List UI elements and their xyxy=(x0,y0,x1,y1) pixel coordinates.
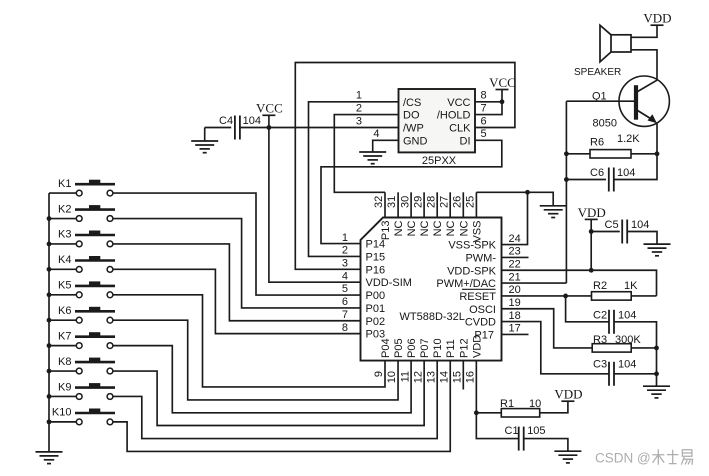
svg-text:K3: K3 xyxy=(58,229,71,241)
wire R2 right xyxy=(631,295,656,297)
wire C2 right down to ground rail xyxy=(614,322,657,386)
svg-text:29: 29 xyxy=(412,196,424,208)
resistor R1 xyxy=(500,398,541,417)
svg-text:P15: P15 xyxy=(366,252,386,264)
svg-text:C4: C4 xyxy=(219,115,233,127)
wire R3 right xyxy=(631,347,656,349)
svg-text:/WP: /WP xyxy=(403,123,424,135)
wire K5 to P04 pin9 xyxy=(113,295,385,387)
svg-text:19: 19 xyxy=(509,297,521,309)
svg-text:P05: P05 xyxy=(393,338,405,358)
node R3 right junction xyxy=(654,346,659,351)
svg-text:P02: P02 xyxy=(366,316,386,328)
svg-text:1: 1 xyxy=(356,90,362,102)
svg-text:SPEAKER: SPEAKER xyxy=(574,67,621,78)
node pin16 R1 junction xyxy=(474,410,479,415)
resistor R2 xyxy=(592,280,639,300)
svg-text:DO: DO xyxy=(403,110,420,122)
svg-text:7: 7 xyxy=(342,309,348,321)
svg-text:VCC: VCC xyxy=(489,75,516,90)
svg-text:K1: K1 xyxy=(58,178,71,190)
VDD supply symbol bottom xyxy=(554,387,582,402)
svg-text:NC: NC xyxy=(432,220,444,236)
svg-text:2: 2 xyxy=(342,245,348,257)
wire OSCI pin19 to R3 left xyxy=(502,309,593,348)
svg-text:13: 13 xyxy=(425,371,437,383)
wire Q1 emitter down xyxy=(656,123,658,154)
wire C1 to ground xyxy=(524,439,568,452)
svg-text:31: 31 xyxy=(386,196,398,208)
svg-text:K5: K5 xyxy=(58,280,71,292)
svg-text:NC: NC xyxy=(458,220,470,236)
node VDD to pin22 junction xyxy=(589,268,594,273)
svg-text:VCC: VCC xyxy=(447,97,470,109)
svg-text:GND: GND xyxy=(403,135,428,147)
wire C6 right up to emitter node xyxy=(614,154,657,180)
wire CVDD pin18 to C3 left xyxy=(502,322,610,374)
wire K1 left terminal to bus xyxy=(49,192,76,194)
pushbutton K3 xyxy=(58,229,115,247)
wire K3 left terminal to bus xyxy=(49,243,76,245)
pushbutton K2 xyxy=(58,203,115,221)
svg-text:4: 4 xyxy=(342,270,348,282)
wire pin16 to R1 left xyxy=(476,412,501,414)
pin 17 P17 stub (unconnected) xyxy=(502,333,529,335)
capacitor C4 xyxy=(219,115,261,140)
wire R6 right xyxy=(631,153,657,155)
wire Q1 base xyxy=(566,100,634,102)
wire K5 left terminal to bus xyxy=(49,294,76,296)
svg-text:WT588D-32L: WT588D-32L xyxy=(400,311,465,323)
junction dots on button bus xyxy=(47,216,52,424)
wire K8 left terminal to bus xyxy=(49,370,76,372)
svg-text:VDD: VDD xyxy=(554,387,582,402)
wire VDD to C5 xyxy=(591,231,620,233)
svg-text:P04: P04 xyxy=(380,338,392,358)
node VSS junction xyxy=(525,190,530,195)
wire 25PXX VCC pin8 xyxy=(475,101,502,103)
wire 25PXX CLK pin6 to P16 pin3 xyxy=(295,63,515,270)
pushbutton K10 xyxy=(52,407,115,425)
resistor R6 xyxy=(590,136,631,158)
svg-text:C5: C5 xyxy=(605,219,619,231)
IC U1 25PXX flash memory xyxy=(356,89,487,167)
wire K9 to P10 pin13 xyxy=(113,361,437,439)
wire K10 left terminal to bus xyxy=(49,421,76,423)
ground at VSS xyxy=(540,206,567,218)
svg-text:P01: P01 xyxy=(366,303,386,315)
wire K10 to P11 pin14 xyxy=(113,361,450,452)
svg-text:NC: NC xyxy=(445,220,457,236)
svg-text:NC: NC xyxy=(406,220,418,236)
svg-text:VCC: VCC xyxy=(256,101,283,116)
svg-text:6: 6 xyxy=(481,115,487,127)
svg-text:23: 23 xyxy=(509,246,521,258)
svg-text:1.2K: 1.2K xyxy=(617,133,640,145)
svg-text:/CS: /CS xyxy=(403,97,421,109)
node C3 right junction xyxy=(654,371,659,376)
node R6 left junction xyxy=(564,151,569,156)
svg-text:5: 5 xyxy=(481,128,487,140)
svg-text:K6: K6 xyxy=(58,305,71,317)
svg-text:P00: P00 xyxy=(366,290,386,302)
wire RESET node down to C2 xyxy=(566,296,609,322)
svg-text:C3: C3 xyxy=(593,359,607,371)
VDD supply symbol middle xyxy=(578,205,606,220)
capacitor C5 xyxy=(605,219,650,244)
svg-text:R1: R1 xyxy=(500,398,514,410)
VCC supply symbol left xyxy=(256,101,283,116)
svg-text:OSCI: OSCI xyxy=(469,304,496,316)
wire 25PXX /CS pin1 to P15 pin2 xyxy=(309,102,399,257)
wire K2 to P01 pin6 xyxy=(113,219,360,308)
wire VSS pin25 to ground xyxy=(476,192,553,206)
svg-text:8: 8 xyxy=(481,90,487,102)
wire button common bus xyxy=(48,193,50,452)
ground button bus xyxy=(36,452,63,464)
speaker LS1 xyxy=(574,25,631,78)
wire VDD to speaker + xyxy=(631,25,657,37)
svg-text:VDD-SIM: VDD-SIM xyxy=(366,277,412,289)
svg-text:VDD: VDD xyxy=(643,11,671,26)
wire K7 left terminal to bus xyxy=(49,345,76,347)
wire VDD down to VDD-SPK row xyxy=(590,219,592,270)
pushbutton K1 xyxy=(58,178,115,196)
svg-text:/HOLD: /HOLD xyxy=(437,110,471,122)
svg-text:P07: P07 xyxy=(419,338,431,358)
svg-text:R6: R6 xyxy=(590,136,604,148)
node R6 right junction xyxy=(655,151,660,156)
svg-text:R2: R2 xyxy=(593,280,607,292)
svg-text:16: 16 xyxy=(465,371,477,383)
wire 25PXX DI pin5 to P14 pin1 xyxy=(321,140,502,243)
wire to R6 left xyxy=(566,153,590,155)
pin 15 P12 stub (unconnected) xyxy=(462,361,464,390)
wire C4 to ground xyxy=(204,128,206,142)
svg-text:2: 2 xyxy=(356,102,362,114)
svg-text:C1: C1 xyxy=(505,425,519,437)
pushbutton K5 xyxy=(58,280,115,298)
wire K6 to P05 pin10 xyxy=(113,320,398,400)
svg-text:24: 24 xyxy=(509,233,521,245)
svg-text:300K: 300K xyxy=(615,334,641,346)
wire 25PXX /HOLD pin7 to VCC xyxy=(475,102,502,115)
svg-text:10: 10 xyxy=(386,371,398,383)
svg-text:25PXX: 25PXX xyxy=(422,155,457,167)
ground at C3/R3 rail xyxy=(643,386,670,398)
svg-text:P12: P12 xyxy=(458,338,470,358)
wire K7 to P06 pin11 xyxy=(113,346,411,413)
svg-text:30: 30 xyxy=(399,196,411,208)
svg-text:K2: K2 xyxy=(58,203,71,215)
svg-text:15: 15 xyxy=(452,371,464,383)
svg-text:27: 27 xyxy=(438,196,450,208)
wire ground to C4 xyxy=(205,127,232,129)
svg-text:26: 26 xyxy=(452,196,464,208)
wire speaker - to Q1 collector xyxy=(631,50,657,80)
capacitor C1 xyxy=(505,425,546,451)
svg-text:104: 104 xyxy=(243,115,261,127)
wire K4 to P03 pin8 xyxy=(113,269,360,333)
svg-text:VDD: VDD xyxy=(578,205,606,220)
wire K8 to P07 pin12 xyxy=(113,361,424,426)
svg-text:NC: NC xyxy=(419,220,431,236)
VDD supply symbol top xyxy=(643,11,671,26)
wire RESET pin20 to R2 left xyxy=(502,295,592,297)
pin 23 PWM- stub (unconnected) xyxy=(502,256,529,258)
svg-text:9: 9 xyxy=(373,371,385,377)
svg-text:P11: P11 xyxy=(445,339,457,358)
svg-text:104: 104 xyxy=(618,310,636,322)
svg-text:28: 28 xyxy=(425,196,437,208)
svg-text:25: 25 xyxy=(465,196,477,208)
svg-text:7: 7 xyxy=(481,102,487,114)
pins 32-25 top stubs of U2 xyxy=(385,192,476,217)
ground at C4 xyxy=(191,141,218,153)
svg-text:3: 3 xyxy=(356,115,362,127)
svg-text:PWM+/DAC: PWM+/DAC xyxy=(436,278,496,290)
capacitor C3 xyxy=(593,359,636,386)
svg-text:K10: K10 xyxy=(52,407,72,419)
svg-text:104: 104 xyxy=(617,167,635,179)
svg-text:CVDD: CVDD xyxy=(465,317,496,329)
wire 25PXX DO pin2 to P13 pin32 xyxy=(334,115,398,193)
svg-text:K8: K8 xyxy=(58,356,71,368)
svg-text:6: 6 xyxy=(342,296,348,308)
svg-text:20: 20 xyxy=(509,284,521,296)
svg-text:5: 5 xyxy=(342,283,348,295)
pushbutton K6 xyxy=(58,305,115,323)
svg-text:RESET: RESET xyxy=(459,291,496,303)
ground at C5 xyxy=(644,244,671,256)
svg-text:14: 14 xyxy=(438,371,450,383)
svg-text:VDD-SPK: VDD-SPK xyxy=(447,265,497,277)
pushbutton K4 xyxy=(58,254,115,272)
svg-text:C2: C2 xyxy=(593,310,607,322)
wire K2 left terminal to bus xyxy=(49,218,76,220)
wire C3 right xyxy=(614,373,657,375)
wire 25PXX GND pin4 to ground xyxy=(373,140,399,152)
svg-text:P16: P16 xyxy=(366,264,386,276)
svg-text:3: 3 xyxy=(342,258,348,270)
resistor R3 xyxy=(592,334,641,352)
wire VCC to VDD-SIM pin4 xyxy=(269,128,361,283)
svg-text:VSS: VSS xyxy=(471,221,483,243)
svg-text:C6: C6 xyxy=(590,167,604,179)
svg-text:R3: R3 xyxy=(593,334,607,346)
svg-text:12: 12 xyxy=(412,371,424,383)
node VCC junction xyxy=(267,125,272,130)
wire VCC symbol to pin8 xyxy=(501,90,503,102)
svg-text:105: 105 xyxy=(527,425,545,437)
svg-text:22: 22 xyxy=(509,259,521,271)
wire C5 to ground xyxy=(627,232,657,245)
svg-text:PWM-: PWM- xyxy=(465,252,496,264)
node C5 junction xyxy=(589,229,594,234)
svg-text:P06: P06 xyxy=(406,338,418,358)
node RESET junction xyxy=(563,294,568,299)
svg-text:P13: P13 xyxy=(380,221,392,241)
wire Q1 base down to PWM+/DAC xyxy=(565,101,567,283)
node C6 left junction xyxy=(564,177,569,182)
wire VSS-SPK pin24 to VSS net xyxy=(502,192,528,244)
svg-text:18: 18 xyxy=(509,310,521,322)
svg-text:1K: 1K xyxy=(624,280,638,292)
VCC supply symbol at 25PXX xyxy=(489,75,516,90)
IC U2 WT588D-32L voice chip xyxy=(342,196,521,384)
wire K9 left terminal to bus xyxy=(49,395,76,397)
capacitor C2 xyxy=(593,310,636,334)
svg-text:8050: 8050 xyxy=(593,118,617,130)
svg-text:11: 11 xyxy=(399,371,411,382)
svg-text:K7: K7 xyxy=(58,330,71,342)
svg-text:104: 104 xyxy=(631,219,649,231)
svg-text:17: 17 xyxy=(509,323,521,335)
wire K3 to P02 pin7 xyxy=(113,244,360,321)
svg-text:CLK: CLK xyxy=(449,123,471,135)
wire PWM+/DAC pin21 stub xyxy=(502,282,567,284)
wire VCC symbol down xyxy=(268,115,270,127)
pushbutton K9 xyxy=(58,381,115,399)
watermark CSDN xyxy=(595,449,693,465)
node VCC-pin8 junction xyxy=(500,99,505,104)
ground at C1 xyxy=(554,451,581,463)
svg-text:104: 104 xyxy=(618,359,636,371)
wire K4 left terminal to bus xyxy=(49,268,76,270)
svg-text:21: 21 xyxy=(509,271,521,283)
svg-text:10: 10 xyxy=(529,398,541,410)
wire to C6 left xyxy=(566,179,606,181)
svg-text:K4: K4 xyxy=(58,254,71,266)
wire C4 to VCC node to 25PXX /WP pin3 xyxy=(241,127,399,129)
svg-text:P10: P10 xyxy=(432,338,444,358)
capacitor C6 xyxy=(590,167,635,191)
transistor Q1 8050 NPN xyxy=(592,76,669,130)
svg-text:VDD: VDD xyxy=(471,335,483,358)
wire K1 to P00 pin5 xyxy=(113,193,360,295)
svg-text:32: 32 xyxy=(373,196,385,208)
wire K6 left terminal to bus xyxy=(49,319,76,321)
svg-text:K9: K9 xyxy=(58,381,71,393)
wire VDD pin16 down to C1 xyxy=(476,361,518,439)
svg-text:DI: DI xyxy=(460,135,471,147)
wire VDD-SPK pin22 to R2 right xyxy=(502,270,657,296)
pushbutton K7 xyxy=(58,330,115,348)
pushbutton K8 xyxy=(58,356,115,374)
svg-text:4: 4 xyxy=(373,128,379,140)
svg-text:NC: NC xyxy=(393,220,405,236)
ground at 25PXX xyxy=(359,152,386,164)
svg-text:8: 8 xyxy=(342,322,348,334)
svg-text:1: 1 xyxy=(342,232,348,244)
wire R1 right to VDD xyxy=(540,401,568,413)
svg-text:CSDN @: CSDN @ xyxy=(595,450,651,465)
